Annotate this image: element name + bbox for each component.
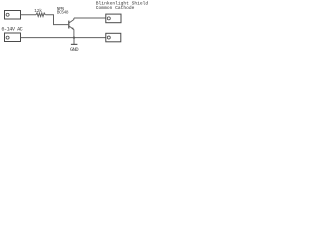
ground GND xyxy=(70,38,78,53)
svg-text:6-14V AC: 6-14V AC xyxy=(1,26,22,32)
wire R1 to base (jog down) xyxy=(45,15,68,25)
svg-text:GND: GND xyxy=(70,47,78,53)
svg-text:12k: 12k xyxy=(34,8,42,14)
svg-text:BC548: BC548 xyxy=(57,11,69,16)
bottom wire to ground connector xyxy=(21,37,106,39)
collector wire to output connector xyxy=(74,17,106,19)
resistor R1 zigzag xyxy=(36,13,45,17)
connector X3 (ground, bottom right) xyxy=(106,33,121,42)
junction dot emitter/ground xyxy=(73,36,75,38)
connector X2 (signal out, top right) xyxy=(106,14,121,23)
connector X1 (AC input, bottom pin) xyxy=(5,33,21,42)
svg-text:Common Cathode: Common Cathode xyxy=(96,5,135,11)
transistor Q1 (NPN BC548) xyxy=(69,18,74,38)
wire X1 to R1 xyxy=(21,14,37,16)
connector X1 (AC input, top pin) xyxy=(5,11,21,20)
